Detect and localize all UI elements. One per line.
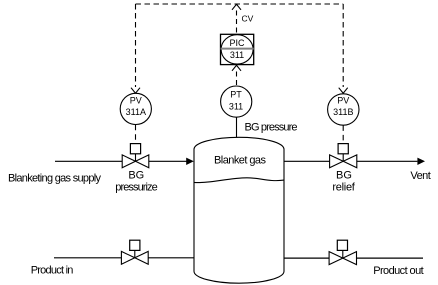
svg-text:CV: CV <box>242 14 254 24</box>
vessel (blanket gas tank) <box>194 137 284 283</box>
svg-text:PV: PV <box>337 95 349 105</box>
svg-text:Product out: Product out <box>373 265 424 277</box>
instrument PV 311B <box>328 94 359 125</box>
liquid level wave <box>194 178 284 183</box>
svg-text:311: 311 <box>229 102 243 112</box>
wire: dashed PT to PIC <box>236 72 238 87</box>
hand valve product out <box>329 250 356 264</box>
arrowhead up to header (CV) <box>232 4 241 10</box>
pipe: product in (left of valve) <box>54 257 121 259</box>
svg-text:pressurize: pressurize <box>115 181 158 193</box>
pipe: product out (vessel to valve) <box>284 257 329 259</box>
valve actuator square (BG relief) <box>338 144 348 154</box>
hand valve product in <box>121 250 148 264</box>
wire: dashed PV 311B to valve actuator <box>342 125 344 143</box>
pipe: product out (valve to edge) <box>357 257 424 259</box>
wire: dashed drop to PV 311B <box>342 4 344 87</box>
svg-text:Blanketing gas supply: Blanketing gas supply <box>8 172 102 184</box>
arrowhead vent <box>417 158 425 165</box>
pipe: vent line (valve to arrow) <box>357 160 418 162</box>
svg-text:PIC: PIC <box>229 38 245 48</box>
arrowhead into PV 311A <box>131 88 140 94</box>
pipe: blanketing gas supply (valve to vessel) <box>149 160 187 162</box>
svg-text:Vent: Vent <box>410 170 430 182</box>
svg-text:BG: BG <box>128 170 144 182</box>
svg-text:311: 311 <box>230 50 244 60</box>
valve actuator square (product in) <box>130 240 140 250</box>
svg-text:BG: BG <box>336 170 352 182</box>
control valve BG relief <box>330 154 357 168</box>
valve actuator square (BG pressurize) <box>130 144 140 154</box>
svg-text:311B: 311B <box>333 107 353 117</box>
pipe: blanketing gas supply (left of valve) <box>55 160 122 162</box>
svg-text:Blanket gas: Blanket gas <box>214 155 267 167</box>
transmitter PT 311 <box>221 86 252 117</box>
wire: dashed signal header from PIC to both PVs <box>136 3 344 5</box>
pipe: BG relief (vessel to valve) <box>284 160 330 162</box>
svg-text:311A: 311A <box>126 107 146 117</box>
arrowhead into PIC bottom <box>232 65 241 71</box>
svg-text:PV: PV <box>130 95 142 105</box>
control valve BG pressurize <box>122 154 149 168</box>
controller PIC 311 (circle in square) <box>221 34 254 64</box>
svg-text:relief: relief <box>332 181 355 193</box>
svg-text:BG pressure: BG pressure <box>245 122 298 134</box>
pipe: product in (valve to vessel) <box>148 257 194 259</box>
valve actuator square (product out) <box>337 240 347 250</box>
svg-text:Product in: Product in <box>31 264 74 276</box>
wire: dashed output of PIC up to header <box>236 11 238 35</box>
wire: PT tap into vessel top <box>236 117 238 139</box>
svg-text:PT: PT <box>230 90 242 100</box>
arrowhead into PV 311B <box>339 88 348 94</box>
wire: dashed drop to PV 311A <box>135 4 137 87</box>
arrowhead into vessel <box>186 158 194 165</box>
wire: dashed PV 311A to valve actuator <box>135 125 137 144</box>
instrument PV 311A <box>120 93 151 124</box>
